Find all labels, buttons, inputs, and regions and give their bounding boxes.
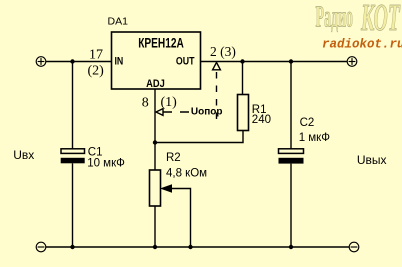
resistor R1 xyxy=(238,95,249,131)
svg-text:8: 8 xyxy=(142,96,149,111)
svg-text:КОТ: КОТ xyxy=(360,0,400,39)
potentiometer R2 body xyxy=(150,170,161,206)
wire C2 bottom xyxy=(290,164,292,247)
op-amp/regulator box DA1 xyxy=(112,32,201,89)
svg-text:ADJ: ADJ xyxy=(146,78,165,90)
svg-text:R2: R2 xyxy=(166,152,181,164)
svg-text:1 мкФ: 1 мкФ xyxy=(299,132,331,144)
wire input to IN pin xyxy=(46,61,112,63)
svg-text:OUT: OUT xyxy=(176,56,195,68)
wire ADJ pin down xyxy=(154,89,156,170)
terminal + input (top-left) xyxy=(36,57,46,67)
svg-text:4,8 кОм: 4,8 кОм xyxy=(166,168,207,180)
svg-text:10 мкФ: 10 мкФ xyxy=(87,158,125,170)
svg-text:Радио: Радио xyxy=(316,1,354,35)
node junction ADJ/R1/R2 xyxy=(153,140,157,144)
wire R1 top xyxy=(242,62,244,95)
svg-text:(1): (1) xyxy=(161,95,178,110)
wire wiper to rail xyxy=(171,189,191,248)
svg-text:Uопор: Uопор xyxy=(191,107,223,118)
svg-text:Uвх: Uвх xyxy=(13,148,34,162)
capacitor C1 plus plate xyxy=(61,149,85,154)
watermark logo RadioKOT xyxy=(316,0,402,52)
svg-text:radiokot.ru: radiokot.ru xyxy=(322,38,402,52)
svg-text:IN: IN xyxy=(115,56,124,68)
svg-text:2 (3): 2 (3) xyxy=(210,44,236,59)
Uopor dashed lead horizontal xyxy=(163,111,190,113)
terminal + output (top-right) xyxy=(347,57,357,67)
node junction C1/rail xyxy=(70,245,74,249)
wire ADJ junction to R1 bottom xyxy=(155,131,243,143)
svg-text:240: 240 xyxy=(252,114,271,126)
node junction wiper/rail xyxy=(188,245,192,249)
potentiometer R2 wiper arrow xyxy=(162,185,172,192)
node junction R2/rail xyxy=(153,245,157,249)
svg-text:17: 17 xyxy=(89,47,103,62)
node junction R1/out xyxy=(240,59,244,63)
capacitor C1 minus plate xyxy=(61,158,85,164)
svg-text:Uвых: Uвых xyxy=(357,153,387,167)
wire C1 top xyxy=(72,62,74,150)
capacitor C2 plus plate xyxy=(279,149,304,154)
node junction C1/input xyxy=(70,59,74,63)
node junction C2/rail xyxy=(289,245,293,249)
svg-text:КРЕН12А: КРЕН12А xyxy=(138,35,184,51)
Uopor arrow at ADJ (hollow left triangle) xyxy=(156,109,163,116)
Uopor dashed lead vertical xyxy=(216,72,218,120)
Uopor arrow at OUT (hollow up triangle) xyxy=(213,62,221,69)
svg-text:C2: C2 xyxy=(300,117,315,129)
node junction C2/out xyxy=(289,59,293,63)
wire bottom rail xyxy=(46,246,350,248)
terminal - bottom-right xyxy=(349,242,359,252)
svg-text:(2): (2) xyxy=(87,64,104,79)
wire OUT pin to + output xyxy=(201,61,348,63)
wire R2 bottom xyxy=(154,206,156,247)
wire C2 top xyxy=(290,62,292,150)
terminal - bottom-left xyxy=(36,242,46,252)
capacitor C2 minus plate xyxy=(279,158,304,164)
wire C1 bottom xyxy=(72,163,74,247)
svg-text:DA1: DA1 xyxy=(108,16,129,28)
